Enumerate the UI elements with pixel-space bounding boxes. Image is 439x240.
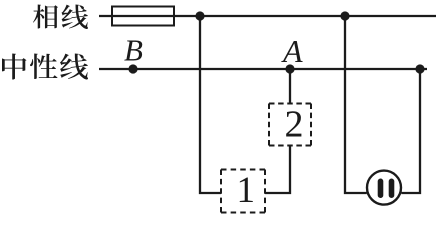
node A on neutral line [285,64,294,73]
wire: from box 1 right side up to box 2 bottom [265,146,290,194]
svg-text:1: 1 [237,170,256,211]
dashed component box 2 [269,104,311,146]
wire: phase line (top horizontal) [99,15,436,17]
wire: lamp right up to neutral line [401,69,420,193]
label text 性 of 中性线 [30,54,58,80]
junction node on neutral line above lamp [415,64,424,73]
svg-text:A: A [281,33,303,69]
svg-text:B: B [124,33,143,68]
wire: left vertical drop from phase line to bottom rail [200,16,221,193]
label text 相 of 相线 [33,5,58,29]
lamp symbol right bar [389,179,395,199]
label text 线 of 中性线 [60,54,88,80]
wire: neutral line (second horizontal) [99,68,427,70]
lamp / socket symbol circle [367,171,401,205]
node B on neutral line [128,64,137,73]
label text 线 of 相线 [62,5,88,29]
dashed component box 1 [221,170,265,213]
fuse on phase line [112,7,174,26]
junction node on phase line above lamp branch [340,11,349,20]
junction node on phase line above box 1 branch [195,11,204,20]
lamp symbol left bar [378,179,384,199]
wire: from node A down to box 2 top [289,69,291,103]
label text 中 of 中性线 [2,54,26,80]
svg-text:2: 2 [285,104,304,146]
wire: vertical from phase line down to lamp left [345,16,367,193]
